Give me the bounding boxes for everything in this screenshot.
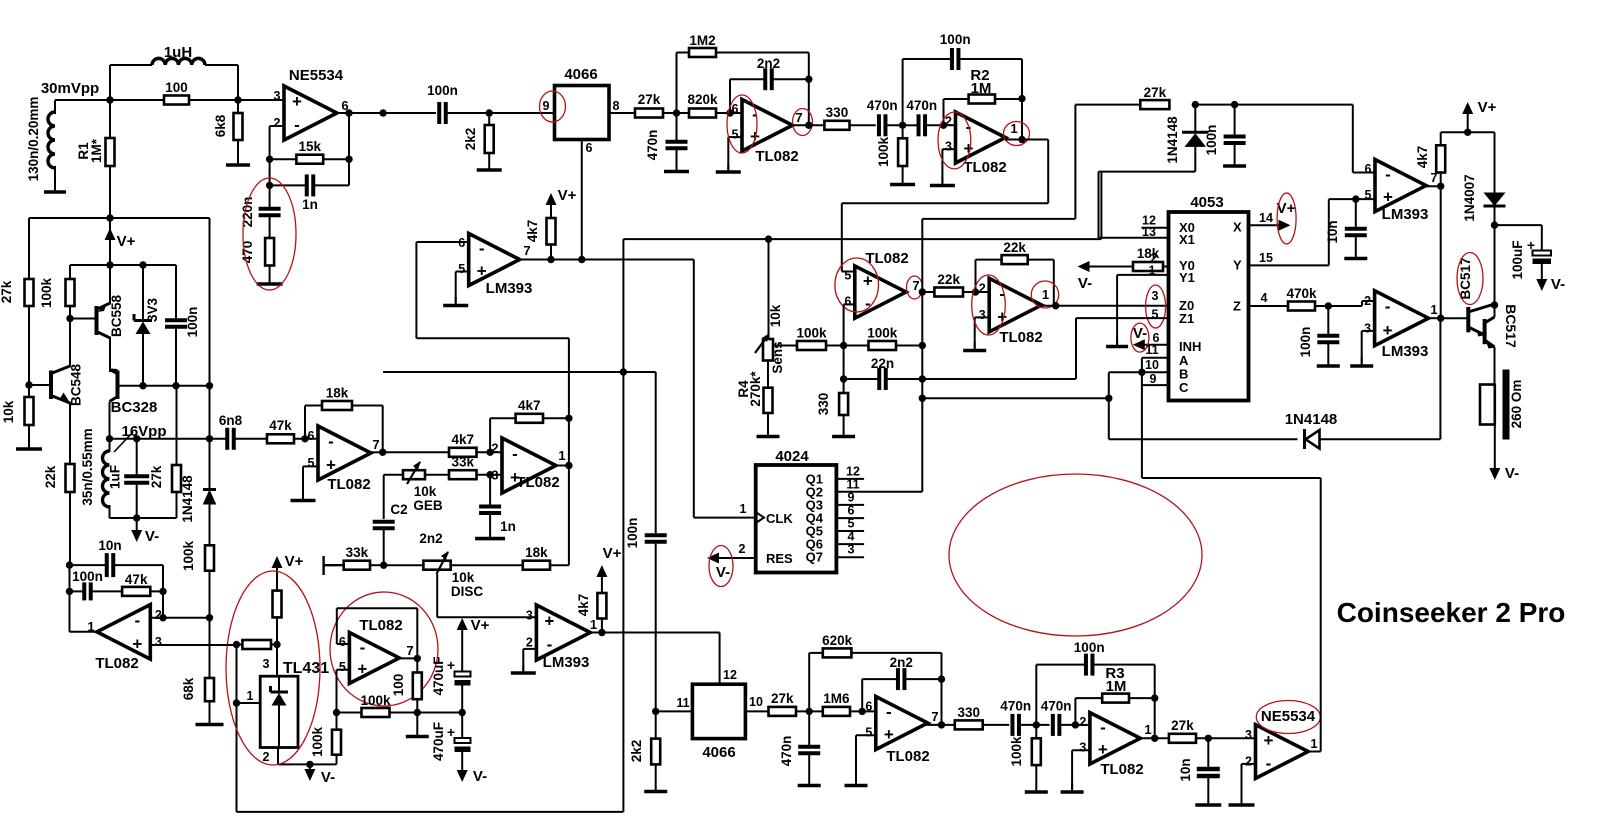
svg-text:2n2: 2n2 xyxy=(757,56,780,71)
pin number 10 4053 xyxy=(1145,358,1159,372)
wire 820k right xyxy=(716,112,742,114)
node LM393b output xyxy=(598,629,605,636)
wire X1 route xyxy=(1099,147,1196,238)
resistor 27k a xyxy=(635,92,663,118)
svg-text:22k: 22k xyxy=(937,272,960,287)
label 2k2 b xyxy=(629,740,644,763)
svg-text:1uF: 1uF xyxy=(108,465,123,489)
pin number 3 4053 xyxy=(1152,289,1159,303)
svg-text:10k: 10k xyxy=(1,400,16,423)
svg-text:2n2: 2n2 xyxy=(890,655,913,670)
comparator LM393 D xyxy=(1364,291,1437,360)
svg-text:100n: 100n xyxy=(940,32,971,47)
node TL082f output xyxy=(1052,302,1059,309)
node output to carrier net xyxy=(379,109,386,116)
svg-text:5: 5 xyxy=(865,726,872,740)
red annotation ellipse V- INH xyxy=(1131,323,1149,352)
svg-text:5: 5 xyxy=(844,269,851,283)
V+ arrow LM393b xyxy=(596,545,621,577)
ground under 68k xyxy=(196,701,224,724)
wire TL082e output column xyxy=(921,219,923,492)
potentiometer 10k Sens xyxy=(755,304,785,373)
node TL082d output xyxy=(1018,136,1025,143)
svg-text:V-: V- xyxy=(321,769,335,786)
ground NE5534b pin2 xyxy=(1229,796,1255,805)
svg-text:4053: 4053 xyxy=(1190,194,1223,211)
svg-text:470n: 470n xyxy=(1041,699,1072,714)
label R1 xyxy=(76,138,104,163)
resistor 27k d xyxy=(1169,718,1196,743)
resistor 27k bias xyxy=(25,279,34,306)
node pin10 xyxy=(1138,369,1145,376)
node 10n a left xyxy=(66,561,73,568)
svg-text:1M6: 1M6 xyxy=(823,691,850,706)
node tank bottom xyxy=(133,514,140,521)
V+ arrow TL431 xyxy=(272,553,304,570)
svg-text:7: 7 xyxy=(523,243,530,258)
svg-text:+: + xyxy=(1098,740,1108,759)
capacitor 220n xyxy=(259,209,281,216)
resistor 330 shunt xyxy=(839,393,848,415)
wire 47k a right xyxy=(150,590,163,592)
svg-text:27k: 27k xyxy=(1171,718,1194,733)
wire 15k right xyxy=(323,158,349,160)
svg-text:7: 7 xyxy=(912,278,919,293)
svg-text:TL082: TL082 xyxy=(95,655,138,672)
wire Q4 stub xyxy=(836,517,864,519)
resistor 100k shunt a xyxy=(898,138,907,166)
resistor 1M2 xyxy=(689,33,716,57)
label 330 shunt xyxy=(816,393,831,416)
wire R1 top xyxy=(109,100,111,138)
wire TL431 left column xyxy=(236,645,238,704)
resistor 4k7 feedback xyxy=(516,398,543,423)
ground 4053 Y1 xyxy=(1106,338,1128,347)
svg-text:3: 3 xyxy=(979,308,986,322)
svg-text:+: + xyxy=(884,725,894,744)
wire TL082h output stub xyxy=(400,657,417,659)
red annotation circle TL082c output xyxy=(793,109,813,136)
wire 620k right xyxy=(851,653,941,679)
wire 470n e right xyxy=(1059,724,1075,726)
svg-text:4k7: 4k7 xyxy=(518,398,541,413)
wire 4066a pin8 to 27k xyxy=(609,112,635,114)
4024 inside labels xyxy=(766,472,824,567)
node BC517 collector xyxy=(1491,301,1498,308)
wire 1M2 left xyxy=(677,53,690,114)
red annotation ellipse pins 3/5 xyxy=(1146,285,1166,328)
resistor 27k top right xyxy=(1140,85,1169,109)
svg-text:3: 3 xyxy=(263,657,270,671)
wire sens to R4 xyxy=(767,361,769,388)
node rail2 BC558 emitter xyxy=(106,261,113,268)
node TL082a pin6 xyxy=(301,435,308,442)
pin number 5 4053 xyxy=(1152,308,1159,322)
wire 220n to 470 xyxy=(269,216,271,238)
svg-text:10: 10 xyxy=(749,695,763,709)
svg-text:2: 2 xyxy=(739,542,746,556)
svg-text:Z1: Z1 xyxy=(1179,311,1194,326)
svg-text:5: 5 xyxy=(458,262,465,276)
red annotation ellipse V+ X xyxy=(1277,193,1296,244)
svg-text:V-: V- xyxy=(473,768,487,785)
svg-text:47k: 47k xyxy=(269,418,292,433)
capacitor 470uF lower xyxy=(431,722,471,761)
wire 4k7a bottom xyxy=(550,245,552,260)
wire LM393a pin6 route xyxy=(416,242,569,418)
ground under 100n z xyxy=(1317,342,1340,366)
svg-text:1M: 1M xyxy=(971,80,992,97)
wire 4k7c bottom xyxy=(1440,173,1442,187)
svg-text:1M*: 1M* xyxy=(89,138,104,163)
ground TL082a pin5 xyxy=(291,490,316,501)
speaker 260 Ohm xyxy=(1480,370,1524,440)
node 2n2b right xyxy=(938,675,945,682)
wire R3 to output xyxy=(1154,698,1156,738)
svg-text:18k: 18k xyxy=(525,545,548,560)
label 4k7 pullup a xyxy=(525,220,540,243)
wire TL082d out loop xyxy=(842,140,1048,272)
capacitor 470n d xyxy=(1000,699,1031,736)
svg-text:2: 2 xyxy=(1364,294,1371,308)
resistor 22k series xyxy=(934,272,963,297)
resistor 330 b xyxy=(955,705,983,729)
red annotation circle TL082e output xyxy=(907,276,923,299)
V- arrow RES xyxy=(707,553,730,582)
wire TL082c output xyxy=(792,124,824,126)
node tank cap xyxy=(133,435,140,442)
wire V+ arrow stub xyxy=(1467,114,1469,132)
capacitor 100n top right xyxy=(1224,137,1246,144)
resistor 22k xyxy=(66,464,75,492)
wire sens top xyxy=(768,239,770,339)
svg-text:-: - xyxy=(547,635,553,654)
wire 1uF bottom xyxy=(136,483,138,518)
svg-text:11: 11 xyxy=(676,696,689,710)
wire 100n d right xyxy=(1093,665,1155,699)
svg-text:4066: 4066 xyxy=(564,66,597,83)
wire BC548 emitter to 22k xyxy=(69,402,71,464)
node TL082e output xyxy=(919,288,926,295)
title Coinseeker 2 Pro xyxy=(1337,597,1566,628)
op-amp TL082 A (RX1) xyxy=(308,426,380,493)
svg-text:30mVpp: 30mVpp xyxy=(41,80,99,97)
svg-text:330: 330 xyxy=(816,393,831,416)
wire C2 node to DISC pot xyxy=(384,564,424,566)
wire TL431 pin1 xyxy=(237,702,261,704)
svg-text:470: 470 xyxy=(240,241,255,264)
svg-text:3: 3 xyxy=(155,635,162,649)
node 470uF rail xyxy=(459,709,466,716)
ground under 1n RX xyxy=(475,513,505,539)
resistor 1M6 xyxy=(823,691,850,716)
resistor 100k v2 xyxy=(1032,738,1041,765)
label 4k7 pullup b xyxy=(576,594,591,617)
wire 1M2 right xyxy=(716,53,809,80)
TX coil 35n/0.55mm xyxy=(103,451,110,507)
resistor 4k7 pullup b xyxy=(597,593,606,619)
svg-text:5: 5 xyxy=(308,456,315,470)
label coil L1 value xyxy=(26,97,41,182)
resistor 47k a xyxy=(122,572,150,596)
svg-text:1: 1 xyxy=(1042,287,1049,302)
resistor 27k b xyxy=(769,691,797,716)
node 4066b pin11 xyxy=(652,708,659,715)
wire V- to 18k xyxy=(1090,266,1134,268)
node TL082b output xyxy=(565,462,572,469)
red annotation ellipse TL082h xyxy=(330,592,438,706)
svg-text:3: 3 xyxy=(1245,728,1252,742)
wire 10n a left xyxy=(70,564,107,566)
wire e-col to ABC route xyxy=(922,397,1109,399)
node carrier cross xyxy=(620,368,627,375)
svg-text:1: 1 xyxy=(590,617,597,632)
diode 1N4148 D2 xyxy=(1165,116,1209,164)
wire 6n8 right xyxy=(234,438,267,440)
wire top route to 27k2 xyxy=(922,105,1140,219)
node TL082c output xyxy=(805,122,812,129)
wire TL082f pin3 gnd xyxy=(975,317,990,348)
wire TL082i output xyxy=(926,724,955,726)
svg-text:C2: C2 xyxy=(390,502,407,517)
node C2 bottom xyxy=(380,562,387,569)
svg-text:18k: 18k xyxy=(326,386,349,401)
resistor R4 270k* xyxy=(764,388,773,413)
red annotation ellipse TL082f inputs xyxy=(972,275,1006,335)
resistor 47k RX xyxy=(267,418,294,443)
wire to LM393d pin2 xyxy=(1328,301,1374,306)
node pin5 rail xyxy=(333,709,340,716)
V+ arrow X output xyxy=(1277,200,1296,231)
svg-text:12: 12 xyxy=(846,465,860,479)
wire 33k right xyxy=(477,474,503,476)
label R2 1M xyxy=(970,67,991,97)
wire RES stub xyxy=(716,557,756,559)
svg-text:470n: 470n xyxy=(867,98,898,113)
V- arrow tank xyxy=(131,528,159,545)
svg-text:BC558: BC558 xyxy=(109,295,124,338)
wire TL082i pin5 gnd xyxy=(856,735,876,783)
wire 2k2b top xyxy=(655,711,657,738)
node input junction xyxy=(106,96,113,103)
wire 100n fbd left xyxy=(903,59,952,125)
wire output column d xyxy=(1021,99,1023,140)
wire 4k7 series right xyxy=(477,451,503,453)
wire 470uF top xyxy=(461,630,463,671)
svg-text:9: 9 xyxy=(848,491,855,505)
wire LM393a pin5 gnd xyxy=(456,272,469,304)
transistor BC558 Q1 xyxy=(70,295,124,339)
resistor R1 1M* xyxy=(106,138,115,166)
wire 27k2 to LM393c xyxy=(1235,105,1375,173)
wire 470n a top xyxy=(676,113,678,142)
svg-text:4k7: 4k7 xyxy=(576,594,591,617)
label 16Vpp with pointer xyxy=(114,423,167,452)
wire V- stub TL431 xyxy=(309,764,311,771)
ground under R4 xyxy=(757,413,780,437)
node 100k/68k divider xyxy=(206,614,213,621)
wire TL082f output to Z0 xyxy=(1041,305,1168,307)
svg-text:TL082: TL082 xyxy=(755,148,798,165)
wire Q6 stub xyxy=(836,543,864,545)
label 470n shunt a xyxy=(645,130,660,161)
node 100uF xyxy=(1491,221,1498,228)
diode 1N4148 D1 xyxy=(180,475,216,523)
resistor 4k7 series xyxy=(449,432,477,457)
svg-text:TL082: TL082 xyxy=(359,617,402,634)
svg-text:11: 11 xyxy=(846,478,859,492)
node R3 right xyxy=(1151,694,1158,701)
wire 100n fbd right xyxy=(959,59,1023,99)
svg-text:2k2: 2k2 xyxy=(629,740,644,763)
svg-text:5: 5 xyxy=(339,660,346,674)
wire 100k bottom xyxy=(69,306,71,319)
wire diode D1 bottom xyxy=(209,504,211,545)
svg-text:Y: Y xyxy=(1233,258,1242,273)
node TL082c pin6 xyxy=(726,109,733,116)
wire 470n sa right xyxy=(886,124,903,126)
svg-text:10k: 10k xyxy=(768,304,783,327)
ground mid rail xyxy=(406,713,429,737)
svg-text:2: 2 xyxy=(263,750,270,764)
svg-text:10n: 10n xyxy=(98,538,121,553)
wire 10n d top xyxy=(1207,738,1209,769)
wire TL431 cathode xyxy=(276,645,278,677)
svg-text:TL082: TL082 xyxy=(963,159,1006,176)
wire NE5534b output xyxy=(1308,751,1321,753)
capacitor 10n c xyxy=(1345,229,1367,236)
pin number 4 4053 xyxy=(1261,291,1268,305)
node output to feedback xyxy=(345,109,352,116)
wire 4066b pin10 xyxy=(745,710,768,712)
V- arrow 100uF xyxy=(1536,276,1565,293)
op-amp NE5534 U1 xyxy=(274,67,349,140)
wire right bias vertical xyxy=(209,218,211,386)
svg-text:4k7: 4k7 xyxy=(451,432,474,447)
wire 33k2 to C2 xyxy=(370,564,384,566)
svg-text:1: 1 xyxy=(740,502,747,516)
capacitor 6n8 xyxy=(219,413,243,450)
comparator LM393 A xyxy=(458,234,532,298)
resistor R2 1M xyxy=(969,95,995,104)
wire 47k to pin6 xyxy=(294,438,318,440)
svg-text:C: C xyxy=(1179,380,1189,395)
svg-text:4024: 4024 xyxy=(775,448,809,465)
svg-text:470uF: 470uF xyxy=(431,656,446,695)
wire R3 right xyxy=(1129,697,1155,699)
svg-text:11: 11 xyxy=(1145,343,1158,357)
svg-text:X: X xyxy=(1233,220,1242,235)
label 1uF xyxy=(108,465,123,489)
svg-text:NE5534: NE5534 xyxy=(289,67,344,84)
analog switch 4066 B xyxy=(676,668,763,761)
wire pin3 row xyxy=(150,644,236,646)
node 27ka/820k xyxy=(673,109,680,116)
svg-text:22k: 22k xyxy=(1003,240,1026,255)
ground TL082d pin3 xyxy=(930,177,955,186)
wire 68k top xyxy=(209,618,211,678)
wire 27kd right xyxy=(1196,737,1256,739)
svg-text:3: 3 xyxy=(1152,289,1159,303)
svg-text:TL082: TL082 xyxy=(999,329,1042,346)
capacitor 100n a xyxy=(72,569,103,600)
node rail3 right xyxy=(206,382,213,389)
ground under 10k xyxy=(16,425,42,449)
wire 470uF lower top xyxy=(461,713,463,739)
wire 18k disc right xyxy=(550,564,569,566)
resistor 100k TL431 xyxy=(332,730,341,755)
svg-text:100k: 100k xyxy=(876,136,891,167)
wire 27k2 row xyxy=(1195,104,1234,106)
red annotation ellipse TL082e inputs xyxy=(835,258,879,312)
node V- TL431 xyxy=(306,761,313,768)
wire 22n right xyxy=(886,378,923,380)
node BC548 base xyxy=(25,381,32,388)
label 1n RX xyxy=(500,519,516,534)
svg-text:100n: 100n xyxy=(72,569,103,584)
svg-text:1n: 1n xyxy=(302,197,318,212)
capacitor 470n series b xyxy=(906,98,937,136)
node 47k 10n join xyxy=(159,588,166,595)
svg-text:100n: 100n xyxy=(625,518,640,549)
capacitor 1n feedback xyxy=(302,174,318,212)
wire rail3 xyxy=(143,385,210,387)
wire NE5534 output xyxy=(337,112,436,114)
transistor BC548 Q2 xyxy=(29,364,84,407)
svg-text:1: 1 xyxy=(1430,302,1437,317)
wire 15k left xyxy=(270,158,297,160)
node TL431 ref xyxy=(273,641,280,648)
svg-text:100k: 100k xyxy=(39,277,54,308)
svg-text:6: 6 xyxy=(339,635,346,649)
node TL082h output xyxy=(414,655,421,662)
wire pins 11/10/9 vertical xyxy=(1142,358,1169,478)
svg-text:27k: 27k xyxy=(1144,85,1167,100)
svg-text:10n: 10n xyxy=(1178,758,1193,781)
diode 1N4148 D3 xyxy=(1285,411,1338,449)
svg-text:47k: 47k xyxy=(125,572,148,587)
label 27k tank xyxy=(149,465,164,488)
svg-text:10k: 10k xyxy=(414,484,437,499)
wire pin2 row xyxy=(150,617,209,619)
label 100n z xyxy=(1298,327,1313,358)
wire carrier horizontal xyxy=(383,371,656,373)
pin number 15 4053 xyxy=(1259,251,1273,265)
svg-text:1: 1 xyxy=(247,689,254,703)
svg-text:27k: 27k xyxy=(771,691,794,706)
op-amp TL082 J xyxy=(1079,713,1151,778)
svg-text:33k: 33k xyxy=(451,455,474,470)
wire coil top xyxy=(109,439,111,452)
svg-text:V-: V- xyxy=(1078,275,1092,292)
svg-text:-: - xyxy=(479,239,485,258)
svg-text:330: 330 xyxy=(826,105,849,120)
svg-text:820k: 820k xyxy=(687,92,718,107)
svg-text:V+: V+ xyxy=(1478,99,1497,116)
svg-text:LM393: LM393 xyxy=(1382,206,1429,223)
resistor 10k xyxy=(25,397,34,425)
svg-text:7: 7 xyxy=(795,110,802,125)
ground under 6k8 xyxy=(226,140,250,165)
label 6k8 xyxy=(213,114,228,137)
wire TL431 pin2 xyxy=(278,748,337,765)
wire 470k right xyxy=(1315,305,1328,307)
svg-text:35n/0.55mm: 35n/0.55mm xyxy=(80,428,95,505)
svg-text:6: 6 xyxy=(848,504,855,518)
wire R2 right xyxy=(995,98,1022,100)
node 100k v2 xyxy=(1033,721,1040,728)
svg-text:100uF: 100uF xyxy=(1510,240,1525,279)
